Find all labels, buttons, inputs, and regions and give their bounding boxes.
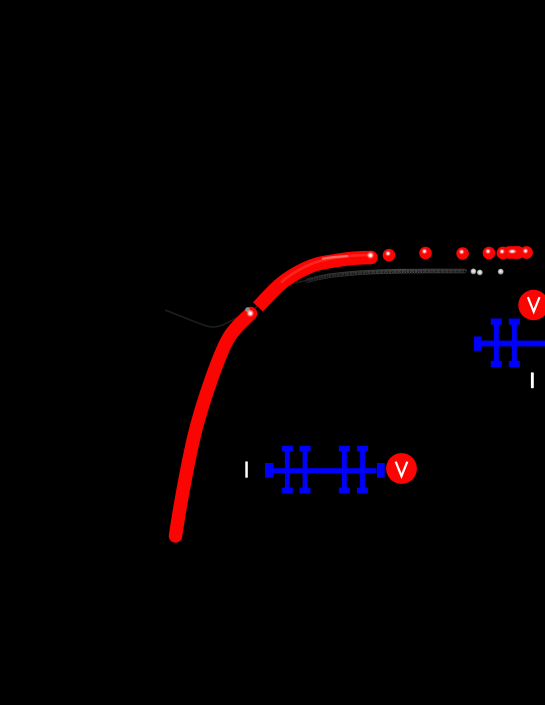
junction pair 1, electrode 1	[282, 446, 293, 493]
red data point balls on flat branch	[383, 246, 533, 261]
gray theory curve (thin S-curve, left part)	[165, 270, 467, 327]
overlapping ball cluster at right	[497, 246, 533, 259]
junction pair 1, electrode 2	[300, 446, 311, 493]
junction electrode 2	[509, 319, 520, 368]
red I-V curve lower branch	[176, 314, 251, 537]
rounded end of upper branch	[364, 251, 378, 265]
junction pair 2, electrode 1	[339, 446, 350, 493]
wire (horizontal lead)	[273, 468, 377, 473]
specular ridge on upper branch	[281, 255, 369, 283]
current label I	[245, 461, 248, 477]
junction electrode 1	[491, 319, 502, 368]
gray data point balls	[471, 269, 504, 276]
left terminal pad	[265, 463, 274, 478]
junction pair 2, electrode 2	[357, 446, 368, 493]
wire (horizontal lead to right edge)	[481, 341, 545, 347]
gray braid texture circles	[306, 269, 466, 283]
highlight at curve end	[367, 252, 375, 260]
circuit symbol: current-biased double tunnel junction with voltmeter	[245, 446, 417, 493]
circuit symbol: single tunnel junction with voltmeter (clipped at right edge)	[474, 290, 545, 388]
white marker ball at switching point	[246, 309, 254, 317]
right terminal pad	[377, 463, 385, 478]
brighter sheen segment	[322, 256, 348, 259]
red I-V curve upper branch	[258, 258, 371, 308]
voltmeter circle	[386, 453, 417, 484]
left terminal pad	[474, 337, 482, 351]
voltmeter circle	[518, 290, 545, 320]
gray marker at switching point	[245, 307, 250, 312]
current label I	[531, 372, 534, 388]
voltmeter letter V	[396, 462, 408, 477]
voltmeter letter V	[528, 297, 540, 312]
